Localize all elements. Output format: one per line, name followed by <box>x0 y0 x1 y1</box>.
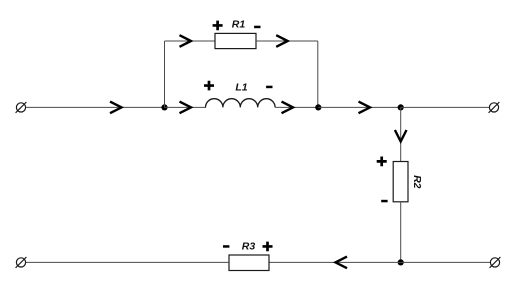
wire: riser from top branch to node B <box>317 41 319 107</box>
resistor R2 <box>393 162 408 202</box>
wire: node C to terminal P2 <box>401 106 490 108</box>
terminal P3 (bottom-left) <box>16 257 27 268</box>
label: R3 minus polarity <box>223 245 229 248</box>
wire: top branch left segment <box>165 40 216 42</box>
terminal P2 (top-right) <box>489 102 500 113</box>
node C (junction) <box>398 104 404 110</box>
svg-text:R2: R2 <box>411 175 423 189</box>
node D (junction) <box>398 259 404 265</box>
resistor R1 <box>215 33 256 48</box>
label: L1 plus polarity <box>204 81 214 91</box>
terminal P1 (top-left) <box>16 102 27 113</box>
wire: node A to L1 <box>165 106 207 108</box>
wire: node D to terminal P4 <box>401 261 491 263</box>
arrow: into L1 <box>180 102 192 114</box>
svg-text:L1: L1 <box>235 81 247 93</box>
wire: L1 to node B <box>275 106 318 108</box>
label: R1 plus polarity <box>213 21 223 31</box>
arrow: top branch after R1 <box>276 35 288 47</box>
wire: top branch right segment <box>256 40 318 42</box>
label: R2 minus polarity <box>381 200 387 203</box>
wire: riser from node A to top branch <box>164 41 166 107</box>
label: L1 minus polarity <box>266 86 272 89</box>
wire: node C down to R2 <box>400 107 402 161</box>
wire: R3 to node D <box>269 261 401 263</box>
label: R3 plus polarity <box>263 242 273 252</box>
arrow: after L1 <box>282 102 294 114</box>
label: R2 plus polarity <box>377 157 387 167</box>
arrow: top branch into R1 <box>180 35 192 47</box>
inductor L1 <box>206 99 276 108</box>
wire: node B to node C <box>318 106 400 108</box>
wire: P1 to node A <box>26 106 165 108</box>
terminal P4 (bottom-right) <box>490 257 501 268</box>
svg-text:R1: R1 <box>232 19 246 31</box>
arrow: current into node A <box>110 102 122 114</box>
arrow: down into R2 <box>395 130 407 142</box>
arrow: node B to node C <box>359 102 371 114</box>
svg-text:R3: R3 <box>242 240 256 252</box>
resistor R3 <box>229 255 269 271</box>
arrow: return current toward R3 <box>336 257 348 269</box>
node A (junction) <box>161 104 167 110</box>
node B (junction) <box>315 104 321 110</box>
wire: R2 to node D <box>400 202 402 263</box>
wire: terminal P3 to R3 <box>26 261 229 263</box>
label: R1 minus polarity <box>254 26 260 29</box>
